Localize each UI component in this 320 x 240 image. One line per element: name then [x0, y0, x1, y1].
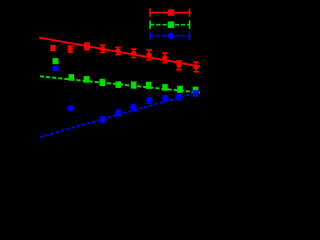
green dashed fit line	[40, 76, 200, 92]
blue data point 7	[162, 96, 169, 102]
blue data point 1	[52, 66, 59, 72]
legend entry blue	[150, 32, 190, 40]
blue data point 6	[146, 98, 153, 104]
green data point 6	[131, 82, 137, 88]
green data point 5	[116, 82, 122, 88]
red fit line	[39, 38, 200, 67]
blue data point 2	[67, 106, 74, 112]
legend entry green	[150, 21, 190, 29]
blue dashed fit line	[40, 92, 200, 138]
red data point 6	[131, 49, 137, 57]
red data point 7	[146, 50, 152, 60]
green data point 1	[53, 58, 59, 64]
green data point 2	[69, 75, 75, 81]
red data point 4	[100, 45, 106, 52]
red data point 3	[84, 43, 90, 49]
red data point 5	[115, 47, 121, 54]
blue data point 3	[100, 116, 107, 122]
green data point 9	[177, 87, 183, 93]
green data point 7	[146, 83, 152, 89]
red data point 2	[67, 46, 73, 52]
red data point 9	[176, 61, 182, 70]
blue data point 5	[130, 105, 137, 111]
green data point 8	[162, 85, 168, 91]
blue data point 4	[115, 110, 122, 116]
green data point 4	[100, 80, 106, 86]
blue data point 8	[176, 95, 183, 101]
red data point 8	[162, 53, 168, 63]
red data point 1	[50, 46, 56, 51]
green data point 3	[84, 77, 90, 83]
red data point 10	[193, 62, 199, 72]
blue data point 9	[192, 91, 199, 97]
legend entry red	[150, 8, 190, 16]
green data point 10	[193, 87, 199, 93]
